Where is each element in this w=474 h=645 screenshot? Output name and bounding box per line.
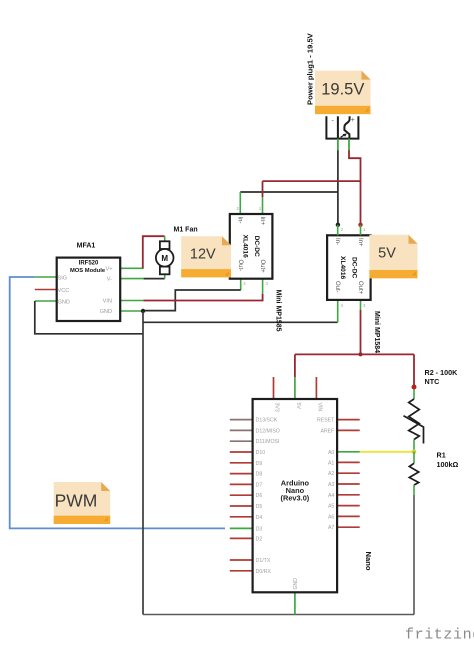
svg-text:Nano: Nano bbox=[364, 552, 373, 571]
svg-text:D4: D4 bbox=[256, 515, 263, 521]
arduino pin labels bbox=[256, 403, 336, 590]
wire gray R1 to GND bbox=[413, 495, 415, 615]
pin stubs right module top bbox=[338, 225, 361, 236]
wire black GND main vertical bbox=[142, 311, 144, 615]
svg-text:GND: GND bbox=[293, 578, 299, 590]
note 5V bbox=[369, 235, 417, 278]
svg-text:D12/MISO: D12/MISO bbox=[256, 428, 280, 434]
node plug-plus junction bbox=[358, 223, 362, 227]
svg-text:fritzing: fritzing bbox=[405, 627, 474, 644]
node 5V junction bbox=[359, 352, 363, 356]
pin stub VIN arduino bbox=[315, 377, 317, 399]
pin stub V+ bbox=[120, 267, 143, 269]
svg-text:V+: V+ bbox=[106, 266, 113, 272]
svg-text:Mini MP1584: Mini MP1584 bbox=[373, 311, 380, 353]
pin stub D1/TX bbox=[230, 559, 253, 561]
svg-text:A0: A0 bbox=[328, 450, 334, 456]
svg-text:In-: In- bbox=[334, 238, 340, 245]
svg-text:M1 Fan: M1 Fan bbox=[174, 227, 198, 234]
svg-text:D0/RX: D0/RX bbox=[256, 569, 272, 575]
svg-text:XL4016: XL4016 bbox=[339, 256, 346, 279]
pin numbers left module bbox=[237, 206, 269, 286]
svg-text:100kΩ: 100kΩ bbox=[437, 460, 459, 469]
module DC-DC XL4016 12V bbox=[230, 214, 273, 279]
pin stub D3 bbox=[230, 527, 253, 529]
resistor R1 100k bbox=[409, 452, 418, 495]
svg-text:R2 - 100K: R2 - 100K bbox=[425, 368, 459, 377]
node R2 top junction bbox=[412, 385, 417, 390]
pin stub D0/RX bbox=[230, 570, 253, 572]
wire black plug-minus vertical bbox=[337, 150, 339, 225]
pin stub AREF bbox=[337, 429, 360, 431]
pin stub D2 bbox=[230, 537, 253, 539]
wire red 12V to VIN bbox=[143, 294, 262, 301]
pin stub D12/MISO bbox=[230, 429, 253, 431]
svg-text:2: 2 bbox=[237, 206, 240, 211]
pin stub A5 bbox=[337, 505, 360, 507]
pin stub SIG bbox=[35, 276, 57, 278]
svg-text:Out+: Out+ bbox=[259, 260, 265, 274]
svg-text:NTC: NTC bbox=[425, 377, 440, 386]
svg-text:A3: A3 bbox=[328, 482, 334, 488]
svg-text:1: 1 bbox=[363, 227, 366, 232]
svg-text:DC-DC: DC-DC bbox=[351, 257, 358, 278]
svg-text:(Rev3.0): (Rev3.0) bbox=[281, 494, 310, 503]
arduino title bbox=[281, 479, 310, 503]
connector power plug J1 bbox=[326, 116, 358, 138]
pin stub plug plus bbox=[348, 139, 350, 151]
pin stub A4 bbox=[337, 494, 360, 496]
wire black In- horizontal bbox=[240, 191, 338, 193]
svg-text:Out+: Out+ bbox=[357, 281, 363, 295]
svg-text:V-: V- bbox=[107, 277, 112, 283]
svg-text:VIN: VIN bbox=[317, 403, 323, 412]
thermistor R2 100K NTC bbox=[404, 390, 424, 452]
svg-text:Power plug1 - 19.5V: Power plug1 - 19.5V bbox=[305, 32, 314, 105]
svg-text:D11/MOSI: D11/MOSI bbox=[256, 439, 280, 445]
svg-text:D7: D7 bbox=[256, 482, 263, 488]
svg-text:D5: D5 bbox=[256, 504, 263, 510]
pin stub Out+ left module bbox=[262, 279, 264, 294]
pin stub plug minus bbox=[337, 139, 339, 151]
pin stub RESET bbox=[337, 419, 360, 421]
pin stub V- bbox=[120, 278, 143, 280]
pin stub D10 bbox=[230, 451, 253, 453]
mcu Arduino Nano U1 bbox=[253, 399, 338, 592]
pin stub In+ left module bbox=[262, 181, 264, 214]
label R1 value bbox=[437, 451, 459, 470]
svg-text:PWM: PWM bbox=[55, 491, 98, 511]
wire black Out- to MFA1 GND bbox=[143, 290, 241, 311]
svg-text:4: 4 bbox=[243, 281, 246, 286]
node MFA1 GND junction bbox=[141, 309, 145, 313]
label R2 value bbox=[425, 368, 459, 386]
svg-text:3: 3 bbox=[266, 281, 269, 286]
svg-text:1: 1 bbox=[259, 206, 262, 211]
svg-text:Out-: Out- bbox=[334, 281, 340, 293]
wire blue SIG to D3 bbox=[10, 277, 225, 528]
svg-text:DC-DC: DC-DC bbox=[253, 236, 260, 257]
module MFA1 IRF520 bbox=[57, 258, 120, 321]
svg-text:3: 3 bbox=[363, 303, 366, 308]
svg-text:D8: D8 bbox=[256, 472, 263, 478]
svg-text:5V: 5V bbox=[295, 403, 301, 410]
pin stub 5V bbox=[294, 377, 296, 399]
pin stub A3 bbox=[337, 483, 360, 485]
svg-text:5V: 5V bbox=[378, 246, 396, 262]
svg-text:4: 4 bbox=[341, 303, 344, 308]
note PWM bbox=[54, 482, 111, 524]
pin stub GND left bbox=[35, 300, 57, 302]
pin stub GND arduino bbox=[294, 592, 296, 614]
svg-text:M: M bbox=[161, 254, 168, 263]
svg-text:D10: D10 bbox=[256, 450, 266, 456]
svg-text:A7: A7 bbox=[328, 525, 334, 531]
svg-text:+: + bbox=[351, 117, 355, 124]
svg-text:D3: D3 bbox=[256, 526, 263, 532]
svg-text:D9: D9 bbox=[256, 461, 263, 467]
pin stub A1 bbox=[337, 461, 360, 463]
pin stub 3V3 bbox=[273, 377, 275, 399]
svg-text:In+: In+ bbox=[259, 217, 265, 226]
wire red In+ horizontal bbox=[263, 180, 361, 182]
svg-text:RESET: RESET bbox=[317, 418, 335, 424]
svg-text:D2: D2 bbox=[256, 536, 263, 542]
pin stub VCC unconnected bbox=[35, 289, 57, 291]
pin stub D5 bbox=[230, 505, 253, 507]
pin stub D4 bbox=[230, 516, 253, 518]
svg-text:A4: A4 bbox=[328, 493, 334, 499]
svg-text:MFA1: MFA1 bbox=[77, 243, 96, 250]
node plug-minus junction bbox=[336, 223, 340, 227]
svg-text:IRF520: IRF520 bbox=[79, 261, 99, 267]
svg-text:R1: R1 bbox=[437, 451, 446, 460]
motor M1 fan bbox=[156, 241, 174, 274]
pin stub A0 bbox=[337, 451, 360, 453]
pin stub D13/SCK bbox=[230, 419, 253, 421]
svg-text:12V: 12V bbox=[190, 247, 216, 263]
svg-text:XL4016: XL4016 bbox=[242, 235, 249, 258]
wire red 5V net bbox=[295, 310, 414, 387]
pin stub D11/MOSI bbox=[230, 440, 253, 442]
svg-text:3V3: 3V3 bbox=[274, 403, 280, 412]
svg-text:A5: A5 bbox=[328, 504, 334, 510]
svg-text:A1: A1 bbox=[328, 460, 334, 466]
pin stub D9 bbox=[230, 462, 253, 464]
svg-text:A6: A6 bbox=[328, 514, 334, 520]
svg-text:D13/SCK: D13/SCK bbox=[256, 418, 278, 424]
wire yellow A0 to divider bbox=[360, 451, 414, 453]
wire red plug-plus bbox=[349, 150, 361, 225]
wire gray GND bottom bbox=[143, 614, 414, 616]
wire red V+ to motor bbox=[143, 236, 165, 268]
pin stub Out+ right module bbox=[360, 300, 362, 310]
wire black MFA1 GND-left loop bbox=[35, 301, 143, 334]
pin stub motor bottom bbox=[164, 274, 166, 278]
svg-text:19.5V: 19.5V bbox=[321, 81, 364, 99]
note grips bbox=[105, 108, 417, 521]
svg-text:AREF: AREF bbox=[320, 428, 334, 434]
note 19.5V bbox=[315, 71, 371, 115]
svg-text:GND: GND bbox=[58, 299, 70, 305]
svg-text:-: - bbox=[332, 118, 335, 125]
pin stub D6 bbox=[230, 494, 253, 496]
svg-text:In+: In+ bbox=[357, 238, 363, 247]
svg-text:D1/TX: D1/TX bbox=[256, 558, 271, 564]
note 12V bbox=[181, 236, 231, 277]
svg-text:D6: D6 bbox=[256, 493, 263, 499]
pin stub Out- right module bbox=[337, 300, 339, 322]
wire black motor to V- bbox=[144, 278, 165, 280]
pin stub Out- left module bbox=[240, 279, 242, 290]
pin stub GND right bbox=[120, 310, 143, 312]
svg-text:A2: A2 bbox=[328, 471, 334, 477]
svg-text:2: 2 bbox=[341, 227, 344, 232]
pin stub A7 bbox=[337, 526, 360, 528]
svg-text:Out-: Out- bbox=[237, 260, 243, 272]
pin stub D8 bbox=[230, 473, 253, 475]
svg-text:SIG: SIG bbox=[58, 275, 68, 281]
pin stub VIN bbox=[120, 300, 143, 302]
pin numbers right module bbox=[341, 227, 367, 308]
pin stub D7 bbox=[230, 483, 253, 485]
svg-text:VIN: VIN bbox=[103, 299, 112, 305]
pin stub In- left module bbox=[239, 192, 241, 214]
svg-text:Mini MP1585: Mini MP1585 bbox=[274, 290, 281, 332]
svg-text:MOS Module: MOS Module bbox=[70, 268, 106, 274]
svg-text:VCC: VCC bbox=[58, 288, 70, 294]
wire black GND to Out- of 5V module bbox=[143, 321, 338, 323]
module DC-DC XL4016 5V bbox=[327, 235, 371, 300]
pin stub motor top bbox=[164, 236, 166, 241]
svg-text:In-: In- bbox=[237, 217, 243, 224]
svg-text:GND: GND bbox=[100, 309, 112, 315]
pin stub A6 bbox=[337, 515, 360, 517]
pin stub A2 bbox=[337, 472, 360, 474]
node divider junction bbox=[412, 450, 417, 455]
